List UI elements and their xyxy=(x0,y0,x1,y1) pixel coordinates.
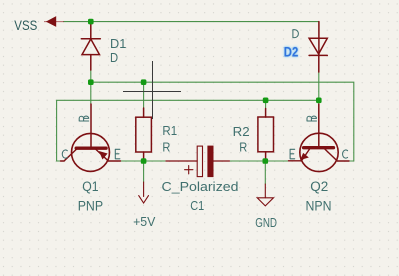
diode D2 xyxy=(309,38,327,54)
svg-text:R: R xyxy=(239,140,247,155)
label D2 value xyxy=(293,30,299,38)
cursor crosshair xyxy=(123,61,181,119)
svg-text:Q2: Q2 xyxy=(310,179,328,194)
svg-text:GND: GND xyxy=(255,215,277,230)
wire +5V stub xyxy=(143,161,145,182)
junction D1 anode / base Q1 net xyxy=(88,79,94,85)
diode D1 xyxy=(81,38,100,40)
wire R1 top segment xyxy=(143,82,145,108)
junction at VSS rail / D1 cathode xyxy=(88,19,94,25)
svg-text:PNP: PNP xyxy=(78,198,103,213)
resistor R1 xyxy=(136,117,152,152)
svg-text:+5V: +5V xyxy=(133,214,156,229)
wire R2 top segment xyxy=(265,100,267,108)
capacitor C1 plates xyxy=(197,146,202,177)
wire net R1top: D1 anode to Q2 collector xyxy=(91,82,354,161)
pin E of Q2 xyxy=(290,149,295,159)
svg-text:C_Polarized: C_Polarized xyxy=(162,179,239,194)
svg-text:C1: C1 xyxy=(190,198,204,213)
power symbol +5V xyxy=(139,182,149,203)
wire GND stub xyxy=(264,161,266,184)
junction R2 bottom / GND xyxy=(263,158,269,164)
transistor Q1 xyxy=(61,104,121,171)
svg-text:D1: D1 xyxy=(110,36,126,51)
svg-text:VSS: VSS xyxy=(14,18,37,33)
pin C of Q1 xyxy=(62,150,67,158)
wire bottom rail left xyxy=(121,160,167,162)
wire bottom rail right xyxy=(229,160,288,162)
svg-text:R: R xyxy=(162,140,170,155)
wire D2 anode segment xyxy=(318,72,320,104)
capacitor C1 plus sign xyxy=(185,166,193,174)
pin name labels Q2 xyxy=(290,116,348,159)
junction R1 top xyxy=(141,79,147,85)
resistor R2 xyxy=(258,117,274,152)
wire D1 anode segment xyxy=(90,70,92,104)
pin B of Q1 xyxy=(79,116,89,121)
pin name labels Q1 xyxy=(62,116,120,159)
svg-text:NPN: NPN xyxy=(306,198,332,213)
svg-text:D: D xyxy=(110,50,118,65)
pin E of Q1 xyxy=(115,149,120,159)
global label VSS arrow xyxy=(44,21,64,23)
wire VSS top rail xyxy=(64,21,319,23)
junction D2 anode / base Q2 xyxy=(316,98,322,104)
pin B of Q2 xyxy=(307,116,317,121)
svg-text:Q1: Q1 xyxy=(82,179,98,194)
svg-text:R1: R1 xyxy=(162,123,177,138)
transistor Q2 xyxy=(289,104,350,172)
pin C of Q2 xyxy=(343,150,348,158)
junction R2 top xyxy=(263,98,269,104)
svg-text:R2: R2 xyxy=(233,124,250,139)
power symbol GND xyxy=(257,184,273,206)
svg-text:D2: D2 xyxy=(284,45,299,60)
wire net Q1 collector rail xyxy=(57,100,319,161)
junction R1 bottom / +5V xyxy=(141,158,147,164)
